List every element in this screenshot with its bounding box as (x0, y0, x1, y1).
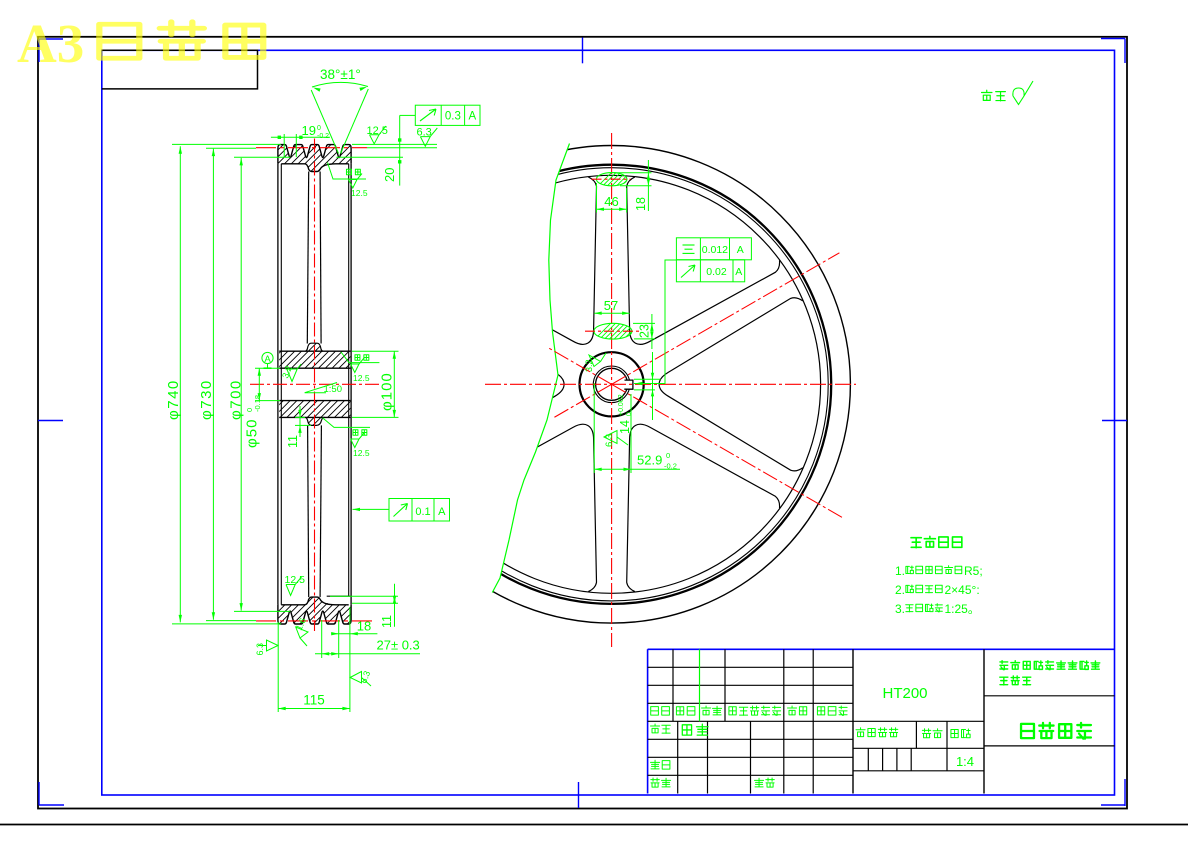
stage mark row lines (853, 747, 984, 749)
top-left attached block rectangle (102, 50, 258, 89)
svg-text:HT200: HT200 (882, 685, 927, 702)
tech requirements title (911, 538, 921, 548)
dim 18 (spoke rim thickness) (614, 172, 652, 174)
left view: rim side silhouette lines (277, 164, 279, 605)
dim phi700 (240, 158, 242, 611)
svg-text:3.2: 3.2 (584, 359, 594, 372)
qi-yu (rest) roughness note (982, 90, 992, 100)
dim phi50 (255, 367, 280, 369)
leader for 0.3 A (400, 114, 416, 116)
yellow watermark CJK da-dai-lun (99, 24, 139, 58)
svg-text:2.: 2. (895, 583, 905, 597)
svg-text:φ50: φ50 (244, 419, 261, 448)
spoke gap at 90+ deg (444, 177, 597, 344)
left view: red pitch line top (256, 147, 367, 149)
dim phi700 ext right (336, 156, 403, 158)
svg-text:0: 0 (317, 125, 321, 132)
left view: red vertical centerline (314, 139, 316, 632)
dim phi730 (212, 149, 214, 620)
dim 23 (spoke hub thickness) (633, 322, 655, 324)
dim 27+-0.3 bottom (321, 620, 323, 658)
left view: red horizontal axis line (250, 383, 379, 385)
svg-text:12.5: 12.5 (353, 373, 370, 383)
svg-text:52.9: 52.9 (637, 453, 662, 468)
spoke gap at 330+ deg (659, 298, 803, 471)
dim 52.9 (593, 455, 595, 473)
title block vertical lines upper (672, 649, 674, 721)
dim 14+0.062 keyway (634, 378, 661, 380)
svg-text:A: A (438, 506, 446, 518)
svg-text:23: 23 (638, 324, 652, 338)
dim 57 (594, 312, 629, 314)
svg-text:0.1: 0.1 (415, 506, 430, 518)
dim phi100 (352, 350, 399, 352)
datum A symbol (262, 352, 273, 363)
taper 1:50 symbol (305, 383, 337, 393)
svg-text:1:4: 1:4 (956, 754, 974, 769)
roughness 3.2 in bore (287, 364, 301, 382)
keyway outline (624, 380, 633, 389)
bore circle and chamfer circle (593, 366, 630, 403)
red centerlines right view (611, 133, 613, 647)
svg-text:0: 0 (626, 412, 633, 416)
dim phi740 (179, 146, 181, 622)
svg-text:12.5: 12.5 (351, 188, 368, 198)
svg-text:38°±1°: 38°±1° (320, 67, 361, 82)
svg-text:6.3: 6.3 (255, 643, 265, 656)
19 -0.2 dim at top (283, 134, 285, 157)
right section lines (983, 649, 985, 793)
svg-text:+0.062: +0.062 (618, 394, 625, 416)
svg-text:0: 0 (666, 451, 670, 460)
stage mark labels (856, 728, 865, 737)
svg-text:12.5: 12.5 (353, 448, 370, 458)
ext lines for 52.9 up to hub (593, 383, 595, 455)
left view: hub outline (279, 350, 350, 352)
process row (651, 778, 660, 787)
left view: lower spoke edges (308, 425, 309, 597)
roughness 1.6 bottom (296, 627, 308, 646)
svg-text:φ730: φ730 (198, 379, 215, 420)
two-groove 12.5 note top (328, 163, 367, 180)
svg-text:φ740: φ740 (165, 379, 182, 420)
hub outer circle (580, 352, 644, 416)
roughness 3.2 hub (589, 353, 606, 367)
keyway white patch (618, 380, 633, 389)
left view: top rim groove profile (278, 145, 351, 164)
title block horizontal lines (648, 666, 853, 668)
svg-text:0.02: 0.02 (706, 266, 727, 278)
svg-text:27± 0.3: 27± 0.3 (377, 638, 420, 653)
runout frame 0.1 A mid-right (389, 499, 450, 522)
svg-text:1.: 1. (895, 564, 905, 578)
svg-text:A: A (735, 266, 742, 278)
left view: rim inner edges with spoke fillets (281, 164, 348, 172)
svg-text:14: 14 (618, 420, 632, 434)
roughness 6.3 bottom spoke (604, 431, 628, 446)
runout frame 0.3 A top (415, 105, 480, 125)
inner blue border frame (102, 50, 1115, 795)
svg-text:19: 19 (302, 123, 316, 138)
dim 11 bottom right (330, 595, 398, 597)
green column line (699, 649, 701, 721)
left view: red pitch line bottom (256, 620, 376, 622)
dim 115 bottom (277, 622, 279, 712)
roughness 6.3 bottom-left on ext (258, 640, 278, 651)
svg-text:A: A (468, 111, 476, 123)
svg-text:A: A (737, 244, 744, 256)
svg-text:A: A (264, 354, 271, 365)
svg-text:57: 57 (604, 298, 618, 313)
left view: upper spoke edges (307, 172, 308, 344)
leader for tol frames (634, 260, 676, 384)
two-groove 12.5 note hub right lower (323, 418, 371, 428)
svg-text:2×45°:: 2×45°: (945, 583, 980, 597)
svg-text:-0.2: -0.2 (317, 133, 329, 140)
spoke section ellipse top (green) (592, 170, 651, 192)
svg-text:0.012: 0.012 (702, 244, 728, 256)
svg-text:18: 18 (634, 197, 648, 211)
svg-text:1:50: 1:50 (324, 384, 343, 395)
rim inner circle (403, 175, 821, 593)
svg-text:R5;: R5; (964, 564, 983, 578)
svg-text:3.: 3. (895, 602, 905, 616)
dim 46 (596, 183, 598, 213)
spoke gap at 150+ deg (420, 298, 564, 471)
svg-text:1:25。: 1:25。 (945, 602, 980, 616)
spoke gap at 30+ deg (627, 177, 780, 344)
dim 18 bottom (338, 620, 340, 658)
left view: hub bottom spoke fillet bump (305, 417, 324, 425)
blue centering marks (39, 38, 63, 40)
rim double arc thick (392, 165, 831, 604)
left view: bottom rim groove profile (278, 605, 351, 624)
two-groove 12.5 note hub right upper (341, 352, 379, 363)
red centerline through ellipses (592, 178, 631, 180)
part name da pi dai lun (1021, 724, 1034, 738)
left view: hub top spoke fillet bump (305, 343, 323, 351)
designer row (651, 724, 660, 733)
tol frames 0.012/0.02 A (676, 238, 751, 260)
svg-text:20: 20 (382, 168, 397, 182)
roughness 6.3 bottom-right on ext (350, 672, 371, 687)
rim outer circle (373, 145, 851, 623)
left view: bore lines (279, 367, 350, 369)
spoke section ellipse mid (green) (594, 323, 632, 339)
university name (1000, 661, 1008, 670)
spoke gap at 270+ deg (627, 424, 780, 591)
svg-text:11: 11 (380, 615, 394, 628)
dim phi740 ext right + 20 dim (352, 143, 437, 145)
examine row (651, 760, 660, 769)
left view: rim section hatching bottom (194, 580, 501, 635)
svg-text:A3: A3 (17, 13, 84, 74)
spoke gap at 210+ deg (444, 424, 597, 591)
svg-text:φ100: φ100 (379, 372, 396, 411)
svg-text:46: 46 (604, 194, 618, 209)
dim 11 hub bottom (295, 416, 305, 418)
title block outline (blue left/top) (647, 649, 649, 793)
38 degree dim (311, 90, 338, 154)
title block vertical lines lower (677, 721, 679, 793)
left view: hub hatching (194, 337, 541, 432)
svg-text:18: 18 (357, 619, 371, 634)
svg-text:-0.18: -0.18 (253, 395, 262, 412)
svg-text:6.3: 6.3 (604, 434, 615, 447)
svg-text:-0.2: -0.2 (664, 462, 677, 471)
green break line (partial view boundary) (492, 144, 569, 593)
left view: extra rim edge line bottom right (11 dim) (327, 595, 351, 597)
bottom page separator line (0, 824, 1188, 826)
title block labels row4 (651, 707, 659, 716)
svg-text:115: 115 (303, 693, 325, 708)
svg-text:11: 11 (286, 435, 300, 448)
svg-text:φ700: φ700 (228, 379, 245, 420)
svg-text:0.3: 0.3 (445, 111, 461, 123)
left view: rim section hatching top (194, 135, 491, 180)
